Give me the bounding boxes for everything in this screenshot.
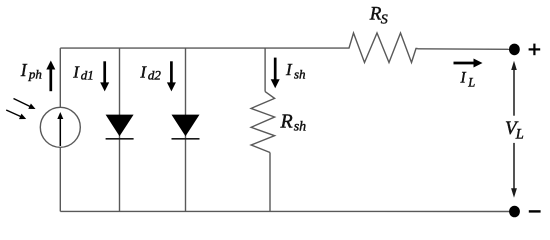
- svg-text:d2: d2: [148, 67, 162, 82]
- wire Rsh branch lower: [269, 153, 271, 212]
- wire left branch lower: [59, 147, 61, 211]
- diode D1: [106, 115, 134, 137]
- node plus terminal: [509, 44, 520, 56]
- light arrow upper: [14, 99, 31, 107]
- wire left branch upper: [59, 48, 61, 107]
- node minus terminal: [509, 206, 520, 218]
- svg-text:I: I: [460, 69, 467, 86]
- svg-text:I: I: [20, 60, 28, 80]
- minus sign: [529, 210, 541, 212]
- svg-text:S: S: [381, 12, 388, 27]
- svg-text:sh: sh: [294, 67, 306, 82]
- plus sign: [529, 48, 541, 50]
- wire bottom rail: [60, 210, 512, 212]
- wire top rail right segment: [418, 48, 513, 51]
- current source arrow: [59, 119, 61, 147]
- current arrow Iph: [49, 69, 52, 92]
- svg-text:ph: ph: [28, 66, 42, 81]
- current arrow IL: [454, 62, 475, 65]
- voltage arrow VL upper: [513, 70, 515, 116]
- svg-text:R: R: [280, 110, 293, 132]
- current arrow Id1: [103, 61, 106, 83]
- svg-text:L: L: [467, 76, 475, 90]
- current arrow Id2: [170, 61, 173, 83]
- svg-text:d1: d1: [81, 67, 94, 82]
- voltage arrow VL lower: [513, 143, 515, 189]
- wire diode D2 branch: [185, 48, 187, 211]
- svg-text:sh: sh: [294, 119, 306, 134]
- current source Iph circle: [40, 107, 80, 147]
- current arrow Ish: [274, 58, 277, 80]
- resistor Rsh: [251, 92, 275, 153]
- wire top rail left segment: [60, 47, 345, 49]
- wire diode D1 branch: [119, 48, 121, 211]
- diode D2: [172, 115, 200, 137]
- light arrow lower: [6, 110, 21, 117]
- resistor RS: [346, 33, 418, 63]
- wire Rsh branch upper: [264, 48, 266, 92]
- svg-text:L: L: [515, 126, 524, 142]
